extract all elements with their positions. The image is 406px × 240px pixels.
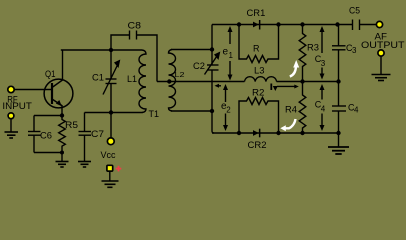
- svg-text:3: 3: [321, 59, 326, 68]
- svg-text:INPUT: INPUT: [2, 101, 32, 111]
- svg-text:R3: R3: [307, 43, 319, 53]
- svg-text:Vcc: Vcc: [101, 150, 116, 160]
- svg-text:L3: L3: [254, 66, 265, 76]
- svg-text:L1: L1: [127, 74, 137, 84]
- svg-text:R5: R5: [65, 120, 78, 130]
- svg-text:C1: C1: [92, 73, 104, 83]
- svg-text:CR1: CR1: [247, 8, 266, 18]
- svg-text:C2: C2: [193, 61, 205, 71]
- svg-text:C5: C5: [349, 6, 360, 16]
- svg-text:3: 3: [352, 46, 357, 55]
- svg-text:L2: L2: [175, 70, 185, 79]
- svg-text:C7: C7: [91, 129, 104, 139]
- svg-text:OUTPUT: OUTPUT: [361, 40, 405, 50]
- svg-text:C8: C8: [128, 21, 142, 31]
- svg-text:Q1: Q1: [45, 69, 56, 79]
- svg-text:1: 1: [229, 51, 234, 60]
- svg-text:CR2: CR2: [248, 140, 267, 150]
- svg-text:2: 2: [226, 106, 231, 115]
- svg-text:R2: R2: [252, 88, 265, 98]
- svg-text:R: R: [253, 44, 260, 54]
- svg-text:C6: C6: [40, 131, 52, 141]
- svg-text:4: 4: [354, 106, 359, 115]
- svg-text:R4: R4: [285, 104, 297, 114]
- svg-text:T1: T1: [149, 109, 160, 119]
- svg-text:4: 4: [321, 104, 326, 113]
